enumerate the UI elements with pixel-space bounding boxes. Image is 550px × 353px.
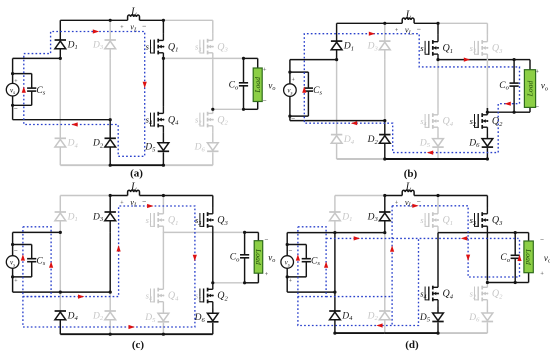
output plus mark c <box>265 271 269 278</box>
transistor Q4 d <box>425 281 439 307</box>
label s2 a <box>195 115 201 127</box>
current arrow 2 c <box>49 261 53 267</box>
label D6 d <box>468 313 480 324</box>
source plus mark d <box>289 279 293 285</box>
node dot xsrc-cs_bot a <box>11 104 14 107</box>
wire Q4 to D5 b <box>437 134 439 139</box>
wire Q1 source c <box>162 231 164 234</box>
svg-text:−: − <box>540 236 544 244</box>
node dot xA-mid d <box>333 231 336 234</box>
node dot xD-out_bot b <box>486 111 489 114</box>
label Cs d <box>311 256 320 267</box>
label Q4 b <box>443 116 454 128</box>
svg-text:−: − <box>417 25 421 34</box>
wire bottom rail d <box>335 332 488 334</box>
svg-text:−: − <box>14 247 18 255</box>
label D6 b <box>468 138 480 149</box>
diode D4 b <box>331 135 342 144</box>
node dot xB-row2 c <box>109 291 112 294</box>
label s4 d <box>420 289 426 301</box>
transistor Q2 b <box>475 108 489 134</box>
output minus mark a <box>263 97 267 105</box>
wire top rail inductor segment c <box>110 195 163 197</box>
label s1 b <box>420 43 426 55</box>
svg-text:(a): (a) <box>130 167 143 179</box>
wire out bottom to Q2 d <box>486 281 488 283</box>
label D2 d <box>367 311 379 322</box>
node dot xC-mid a <box>162 57 165 60</box>
wire Cs bottom row c <box>13 276 32 278</box>
wire top rail right segment c <box>163 195 212 197</box>
label D3 b <box>367 42 379 53</box>
wire mid rail d <box>438 232 515 234</box>
wire D1 to node b <box>336 50 338 60</box>
wire Q1 drain a <box>162 20 164 33</box>
current arrow 2 a <box>143 82 147 88</box>
diode D1 d <box>329 212 340 221</box>
wire Q3 source to out bottom c <box>212 233 214 283</box>
node dot xsrc-cs_bot b <box>288 115 291 118</box>
current arrow 6 b <box>302 86 306 92</box>
wire D2 to bottom rail c <box>109 320 111 335</box>
diode D1 b <box>331 41 342 50</box>
label vo c <box>268 252 275 264</box>
source vs circle b <box>284 84 297 97</box>
label vs c <box>10 259 15 269</box>
wire bottom rail c <box>60 333 213 335</box>
wire D1-D4 column middle c <box>59 232 61 311</box>
current path (blue dashed) 1 c <box>23 227 51 297</box>
wire out bottom rail a <box>213 108 244 110</box>
svg-text:L: L <box>405 182 412 193</box>
wire vs leads a <box>12 74 14 106</box>
wire D3-D2 column middle c <box>109 232 111 292</box>
wire Q1 source a <box>162 58 164 59</box>
label vs b <box>287 87 292 97</box>
node dot xsrc-cs_top a <box>11 72 14 75</box>
current path (blue dashed) 1 b <box>304 34 519 153</box>
node dot xB-row2 b <box>383 119 386 122</box>
label s4 b <box>420 116 426 128</box>
source plus mark a <box>14 79 18 85</box>
node dot xB-mid d <box>383 231 386 234</box>
diode D5 a <box>158 143 169 152</box>
label s2 b <box>470 116 476 128</box>
current arrow 1 c <box>21 254 25 260</box>
wire Cs bottom row b <box>290 115 309 117</box>
capacitor Cs c <box>27 245 36 277</box>
wire source column b <box>289 60 291 121</box>
node dot xD-out_bot d <box>486 281 489 284</box>
label D2 a <box>92 139 104 150</box>
current arrow 8 d <box>517 255 521 261</box>
current path (blue dashed) 2 d <box>326 237 518 239</box>
wire out bottom rail c <box>213 282 245 284</box>
wire D1 branch c <box>59 196 61 213</box>
node dot xCo-out_bot a <box>242 108 245 111</box>
node dot xCo-mid a <box>242 57 245 60</box>
current arrow 3 a <box>71 122 77 126</box>
label D3 d <box>367 212 379 223</box>
label s3 b <box>470 43 476 55</box>
wire source top row a <box>13 57 61 59</box>
wire mid rail a <box>163 57 243 59</box>
diode D4 a <box>55 138 66 147</box>
wire Q1 drain c <box>162 196 164 208</box>
node dot xA-railb d <box>333 332 336 335</box>
label D4 d <box>341 311 353 322</box>
wire out bottom to load a <box>244 102 258 110</box>
label Q3 d <box>492 215 503 227</box>
wire out top to load b <box>514 60 530 70</box>
output minus mark b <box>535 103 539 111</box>
current arrow 1 a <box>93 29 99 33</box>
node dot xD-railb b <box>486 157 489 160</box>
current arrow 2 d <box>324 261 328 267</box>
current path (blue dashed) 2 c <box>23 206 195 327</box>
transistor Q1 b <box>425 35 439 61</box>
wire out top to load c <box>245 232 259 240</box>
wire vs leads b <box>289 72 291 116</box>
load resistor c <box>254 241 263 274</box>
node dot xCo-mid d <box>514 231 517 234</box>
wire D6 to bottom rail c <box>212 323 214 334</box>
label s3 d <box>470 215 476 227</box>
wire D4 to bottom rail b <box>336 143 338 159</box>
label s1 d <box>420 215 426 227</box>
label Q1 d <box>443 215 454 227</box>
current arrow 1 b <box>369 32 375 36</box>
label Q2 d <box>492 289 503 301</box>
svg-text:Load: Load <box>526 80 535 97</box>
label s1 a <box>146 42 152 54</box>
diode D2 a <box>105 138 116 147</box>
wire Q1 drain b <box>437 23 439 35</box>
capacitor Co d <box>511 233 520 283</box>
wire bottom rail a <box>60 164 213 166</box>
caption (d) <box>405 339 419 351</box>
svg-text:−: − <box>291 115 295 123</box>
capacitor Cs d <box>302 245 311 277</box>
current arrow 5 d <box>390 245 394 251</box>
source plus mark c <box>14 279 18 285</box>
capacitor Cs a <box>27 74 36 106</box>
wire Cs top row b <box>290 71 309 73</box>
wire Q2 to D6 d <box>486 307 488 314</box>
transistor Q1 c <box>151 207 165 233</box>
wire D4 to bottom rail d <box>334 320 336 333</box>
current path (blue dashed) 4 d <box>392 206 519 277</box>
wire Q2 to D6 b <box>486 134 488 139</box>
label + vL - a <box>120 22 146 34</box>
wire D3 branch a <box>109 20 111 40</box>
caption (a) <box>130 167 143 179</box>
wire top rail inductor segment b <box>385 22 438 24</box>
wire source column c <box>12 232 14 292</box>
current arrow 4 c <box>117 245 121 251</box>
wire Q2 to D6 c <box>212 309 214 314</box>
wire Q3 drain a <box>212 20 214 33</box>
diode D6 c <box>207 313 218 322</box>
wire top rail left segment d <box>335 195 385 197</box>
inductor label L d <box>405 182 412 193</box>
svg-text:+: + <box>14 279 18 285</box>
wire D5 to bottom rail d <box>437 323 439 334</box>
inductor label L a <box>130 6 137 17</box>
label + vL - b <box>395 25 421 37</box>
wire D5 to bottom rail c <box>162 323 164 334</box>
wire D6 to bottom rail b <box>486 148 488 159</box>
transistor Q2 d <box>475 281 489 307</box>
wire Cs top row a <box>13 73 32 75</box>
wire D3-D2 column middle d <box>384 233 386 293</box>
inductor L b <box>402 18 414 23</box>
inductor label L c <box>130 182 137 193</box>
label s2 c <box>195 291 201 303</box>
wire out bottom to load b <box>514 107 530 112</box>
wire Q2 to D6 a <box>212 133 214 143</box>
diode D3 b <box>379 41 390 50</box>
current path (blue dashed) 1 a <box>24 32 145 157</box>
current path (blue dashed) 6 d <box>298 238 419 325</box>
wire D3 branch d <box>384 196 386 213</box>
current arrow 6 d <box>412 204 418 208</box>
label + vL - d <box>395 197 421 209</box>
wire Q3 source to out bottom d <box>486 233 488 283</box>
node dot xB-rail b <box>383 22 386 25</box>
inductor L d <box>402 190 414 195</box>
wire Q4 to D5 a <box>162 133 164 143</box>
wire D3 branch b <box>384 23 386 41</box>
current arrow 3 b <box>504 102 510 106</box>
source minus mark c <box>14 247 18 255</box>
wire D1 to node c <box>59 221 61 233</box>
node dot xB-rail a <box>109 19 112 22</box>
wire Q3 source to out bottom a <box>212 60 214 110</box>
current arrow 7 c <box>129 325 135 329</box>
wire top rail right segment b <box>438 22 487 24</box>
wire out bottom rail d <box>487 282 515 284</box>
output plus mark b <box>535 68 539 75</box>
node dot xB-row2 a <box>109 118 112 121</box>
diode D3 d <box>379 212 390 221</box>
wire top rail inductor segment a <box>110 19 163 21</box>
wire Q3 drain b <box>486 23 488 35</box>
svg-text:Load: Load <box>524 248 533 265</box>
wire mid to Q4 a <box>162 58 164 106</box>
svg-text:Load: Load <box>253 77 262 94</box>
node dot xsrc-cs_top d <box>286 243 289 246</box>
svg-text:−: − <box>535 103 539 111</box>
label vs a <box>10 86 15 96</box>
wire mid to Q4 c <box>162 232 164 282</box>
source vs circle c <box>6 256 19 269</box>
node dot xC-railb c <box>162 333 165 336</box>
current path (blue dashed) 1 d <box>298 227 326 297</box>
label D5 d <box>419 313 431 324</box>
wire D4 to bottom rail a <box>59 147 61 165</box>
inductor L a <box>128 15 140 20</box>
label D4 a <box>67 139 79 150</box>
diode D4 d <box>329 311 340 320</box>
wire source column a <box>12 58 14 119</box>
node dot xCo-mid c <box>243 231 246 234</box>
diode D2 b <box>379 135 390 144</box>
label D1 a <box>67 40 78 51</box>
wire D1 branch d <box>334 196 336 213</box>
node dot xB-railb a <box>109 164 112 167</box>
diode D2 c <box>105 311 116 320</box>
caption (c) <box>132 339 145 351</box>
label s3 c <box>195 215 201 227</box>
node dot xA-row2 d <box>333 291 336 294</box>
source minus mark d <box>289 247 293 255</box>
label D3 a <box>92 40 104 51</box>
svg-text:−: − <box>263 97 267 105</box>
wire Q4 to D5 c <box>162 309 164 314</box>
transistor Q3 a <box>200 34 214 60</box>
wire mid to Q4 b <box>437 60 439 108</box>
node dot xC-railb a <box>162 164 165 167</box>
label D1 d <box>341 212 352 223</box>
wire vs leads d <box>286 245 288 277</box>
svg-text:−: − <box>142 22 146 31</box>
wire D5 to bottom rail a <box>162 152 164 165</box>
current arrow 5 c <box>147 204 153 208</box>
node dot xsrc-cs_bot d <box>286 275 289 278</box>
diode D5 c <box>158 313 169 322</box>
label Cs b <box>313 86 322 97</box>
wire D1-D4 column middle d <box>334 233 336 311</box>
label Q2 c <box>217 291 228 303</box>
node dot xD-out_bot a <box>211 108 214 111</box>
wire Cs top row d <box>287 244 306 246</box>
wire column B lower b <box>384 121 386 135</box>
node dot xD-out_bot c <box>211 281 214 284</box>
current arrow 6 c <box>193 255 197 261</box>
node dot xB-rail c <box>109 194 112 197</box>
wire out bottom to load c <box>245 273 259 283</box>
wire D2 to bottom rail a <box>109 147 111 165</box>
wire D6 to bottom rail d <box>486 323 488 334</box>
label D2 c <box>92 311 104 322</box>
wire source bottom row b <box>290 120 385 122</box>
label Q3 b <box>492 43 503 55</box>
wire bottom rail b <box>337 158 488 160</box>
wire D3 to node d <box>384 221 386 233</box>
transistor Q4 a <box>151 107 165 133</box>
wire D2 to bottom rail b <box>384 143 386 159</box>
svg-text:(d): (d) <box>405 339 419 351</box>
svg-text:−: − <box>14 104 18 112</box>
label D5 a <box>144 143 156 154</box>
label Cs a <box>36 86 45 97</box>
wire D2 to bottom rail d <box>384 320 386 333</box>
wire source bottom row a <box>13 119 111 121</box>
transistor Q4 c <box>151 283 165 309</box>
wire Q4 to D5 d <box>437 307 439 314</box>
transistor Q2 a <box>200 107 214 133</box>
label s3 a <box>195 42 201 54</box>
label D6 a <box>194 143 206 154</box>
wire top rail right segment a <box>163 19 212 21</box>
wire D1-D4 column middle b <box>336 60 338 135</box>
label Q4 d <box>443 289 454 301</box>
wire D3 to node c <box>109 221 111 233</box>
wire column B lower a <box>109 120 111 139</box>
transistor Q1 d <box>425 207 439 233</box>
svg-text:+: + <box>265 271 269 278</box>
wire out top to load d <box>515 233 528 241</box>
current path (blue dashed) 5 d <box>326 296 392 298</box>
wire top rail left segment a <box>60 19 110 21</box>
diode D1 c <box>55 212 66 221</box>
svg-text:(b): (b) <box>404 168 418 180</box>
current arrow 3 d <box>354 236 360 240</box>
label Q4 c <box>168 291 179 303</box>
node dot xC-rail d <box>436 194 439 197</box>
current arrow 4 d <box>461 236 467 240</box>
svg-text:+: + <box>292 77 296 83</box>
label vo d <box>544 253 550 265</box>
output minus mark c <box>265 236 269 244</box>
current arrow 3 c <box>78 295 84 299</box>
label Q1 b <box>443 43 454 55</box>
wire out bottom to load d <box>515 273 528 283</box>
wire D1 to node d <box>334 221 336 233</box>
label s4 c <box>146 291 152 303</box>
wire column B lower d <box>384 292 386 311</box>
node dot xC-mid b <box>436 58 439 61</box>
node dot xsrc-cs_bot c <box>11 275 14 278</box>
node dot xB-railb b <box>383 157 386 160</box>
svg-text:Load: Load <box>254 248 263 265</box>
node dot xA-row2 c <box>59 291 62 294</box>
label D4 b <box>343 135 355 146</box>
current arrow 4 a <box>22 86 26 92</box>
diode D2 d <box>379 311 390 320</box>
label Co b <box>499 81 509 92</box>
wire source bottom row c <box>13 291 111 293</box>
wire out bottom rail b <box>487 111 514 113</box>
wire D1-D4 column middle a <box>59 58 61 138</box>
wire Q3 drain d <box>486 196 488 208</box>
diode D5 d <box>432 313 443 322</box>
load resistor a <box>253 68 262 102</box>
transistor Q3 c <box>200 207 214 233</box>
node dot xC-rail b <box>436 22 439 25</box>
label + vL - c <box>120 197 146 209</box>
label D6 c <box>194 313 206 324</box>
wire mid to Q4 d <box>437 233 439 281</box>
source minus mark a <box>14 104 18 112</box>
current arrow 9 d <box>376 323 382 327</box>
source plus mark b <box>292 77 296 83</box>
label vo b <box>541 81 548 93</box>
wire Cs bottom row a <box>13 104 32 106</box>
wire Cs bottom row d <box>287 276 306 278</box>
label D1 c <box>67 212 78 223</box>
wire out bottom to Q2 b <box>486 108 488 112</box>
label Q2 b <box>492 116 503 128</box>
wire D3-D2 column middle b <box>384 60 386 121</box>
wire top rail right segment d <box>438 195 487 197</box>
label Q4 a <box>168 115 179 127</box>
output minus mark d <box>540 236 544 244</box>
diode D6 a <box>207 143 218 152</box>
label D2 b <box>367 135 379 146</box>
wire Q1 source d <box>437 232 439 234</box>
